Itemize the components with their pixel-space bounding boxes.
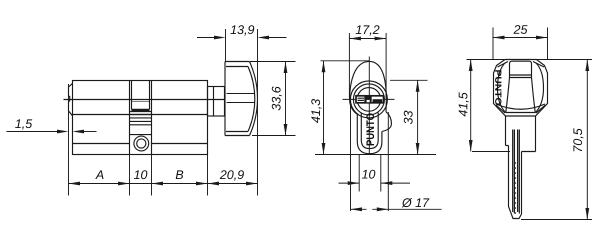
label 17,2: [356, 25, 380, 35]
blade bitting dots: [515, 162, 517, 214]
label 10 (middle view): [362, 170, 375, 179]
plug circle inner: [357, 88, 381, 112]
fin silhouette line: [73, 143, 208, 145]
fin inner outline: [361, 113, 378, 149]
label 70,5: [573, 128, 583, 151]
key head center panel sides: [506, 78, 535, 113]
key head inner rim right: [536, 63, 544, 113]
label 41,5: [459, 92, 469, 116]
dimension 17,2: [349, 33, 386, 98]
label 10 (left view): [134, 170, 147, 179]
cam slot: [130, 81, 152, 112]
dimension 33: [390, 80, 428, 154]
dimension 41,5: [467, 60, 593, 152]
arrows A: [69, 182, 130, 186]
label 13,9: [230, 25, 254, 35]
cam housing verticals: [130, 81, 152, 155]
key head outline: [494, 60, 548, 117]
dimension 41,3: [321, 61, 370, 155]
fixing screw: [134, 136, 149, 151]
plug circle outer: [350, 81, 387, 118]
dimension 1,5: [7, 131, 97, 133]
cam slot bottom bar: [132, 109, 150, 111]
key head corner facet lines: [496, 62, 546, 114]
face right side: [385, 100, 387, 112]
keyway slot: [356, 96, 384, 103]
key head inner rim left: [498, 63, 506, 113]
common baseline: [315, 154, 436, 156]
dimension line: [69, 183, 258, 185]
barrel lower silhouette line: [73, 114, 208, 116]
label A: [95, 170, 103, 179]
label B: [176, 170, 184, 179]
label 20,9: [220, 170, 244, 180]
label Ø 17: [402, 198, 430, 207]
label 1,5: [15, 119, 32, 129]
dimension 10 (middle): [339, 155, 411, 192]
key head inner bottom: [506, 112, 536, 114]
plug circle middle: [353, 84, 384, 115]
fin outer bottom: [357, 132, 382, 154]
key head grip window: [510, 61, 532, 77]
label 33,6: [272, 86, 282, 110]
face outer dome: [350, 61, 387, 100]
key blade: [509, 146, 522, 219]
cam stripes: [130, 115, 152, 135]
label 33: [404, 111, 413, 125]
arrows 20,9: [208, 182, 258, 186]
dimension 13,9: [197, 29, 287, 62]
dimension A/10/B/20,9 extension lines: [69, 29, 258, 196]
knob inner rim lines: [226, 67, 248, 132]
PUNTO brand (key head): [495, 70, 501, 105]
dimension diameter 17: [351, 101, 442, 211]
key head collar curve: [496, 104, 545, 109]
thumbturn knob: [225, 62, 250, 136]
PUNTO brand (face): [366, 113, 374, 145]
dimension 25: [493, 28, 548, 60]
cylinder body outline: [73, 81, 208, 155]
keyway line: [64, 99, 226, 101]
label 41,3: [311, 99, 321, 123]
keyway line lower edge in cam slot: [132, 101, 150, 103]
knob grip slot lines: [227, 94, 255, 103]
arrows B: [152, 182, 208, 186]
neck: [208, 87, 225, 117]
key shoulder: [506, 116, 536, 152]
centerline vertical: [368, 57, 370, 154]
face left side into fin: [350, 100, 358, 142]
dimension 70,5: [521, 60, 592, 220]
blade grooves: [513, 130, 520, 214]
dimension 33,6: [250, 62, 296, 136]
front plug: [69, 83, 73, 116]
right notch: [382, 112, 392, 132]
centerline horizontal: [343, 98, 395, 100]
label 25: [513, 25, 527, 34]
